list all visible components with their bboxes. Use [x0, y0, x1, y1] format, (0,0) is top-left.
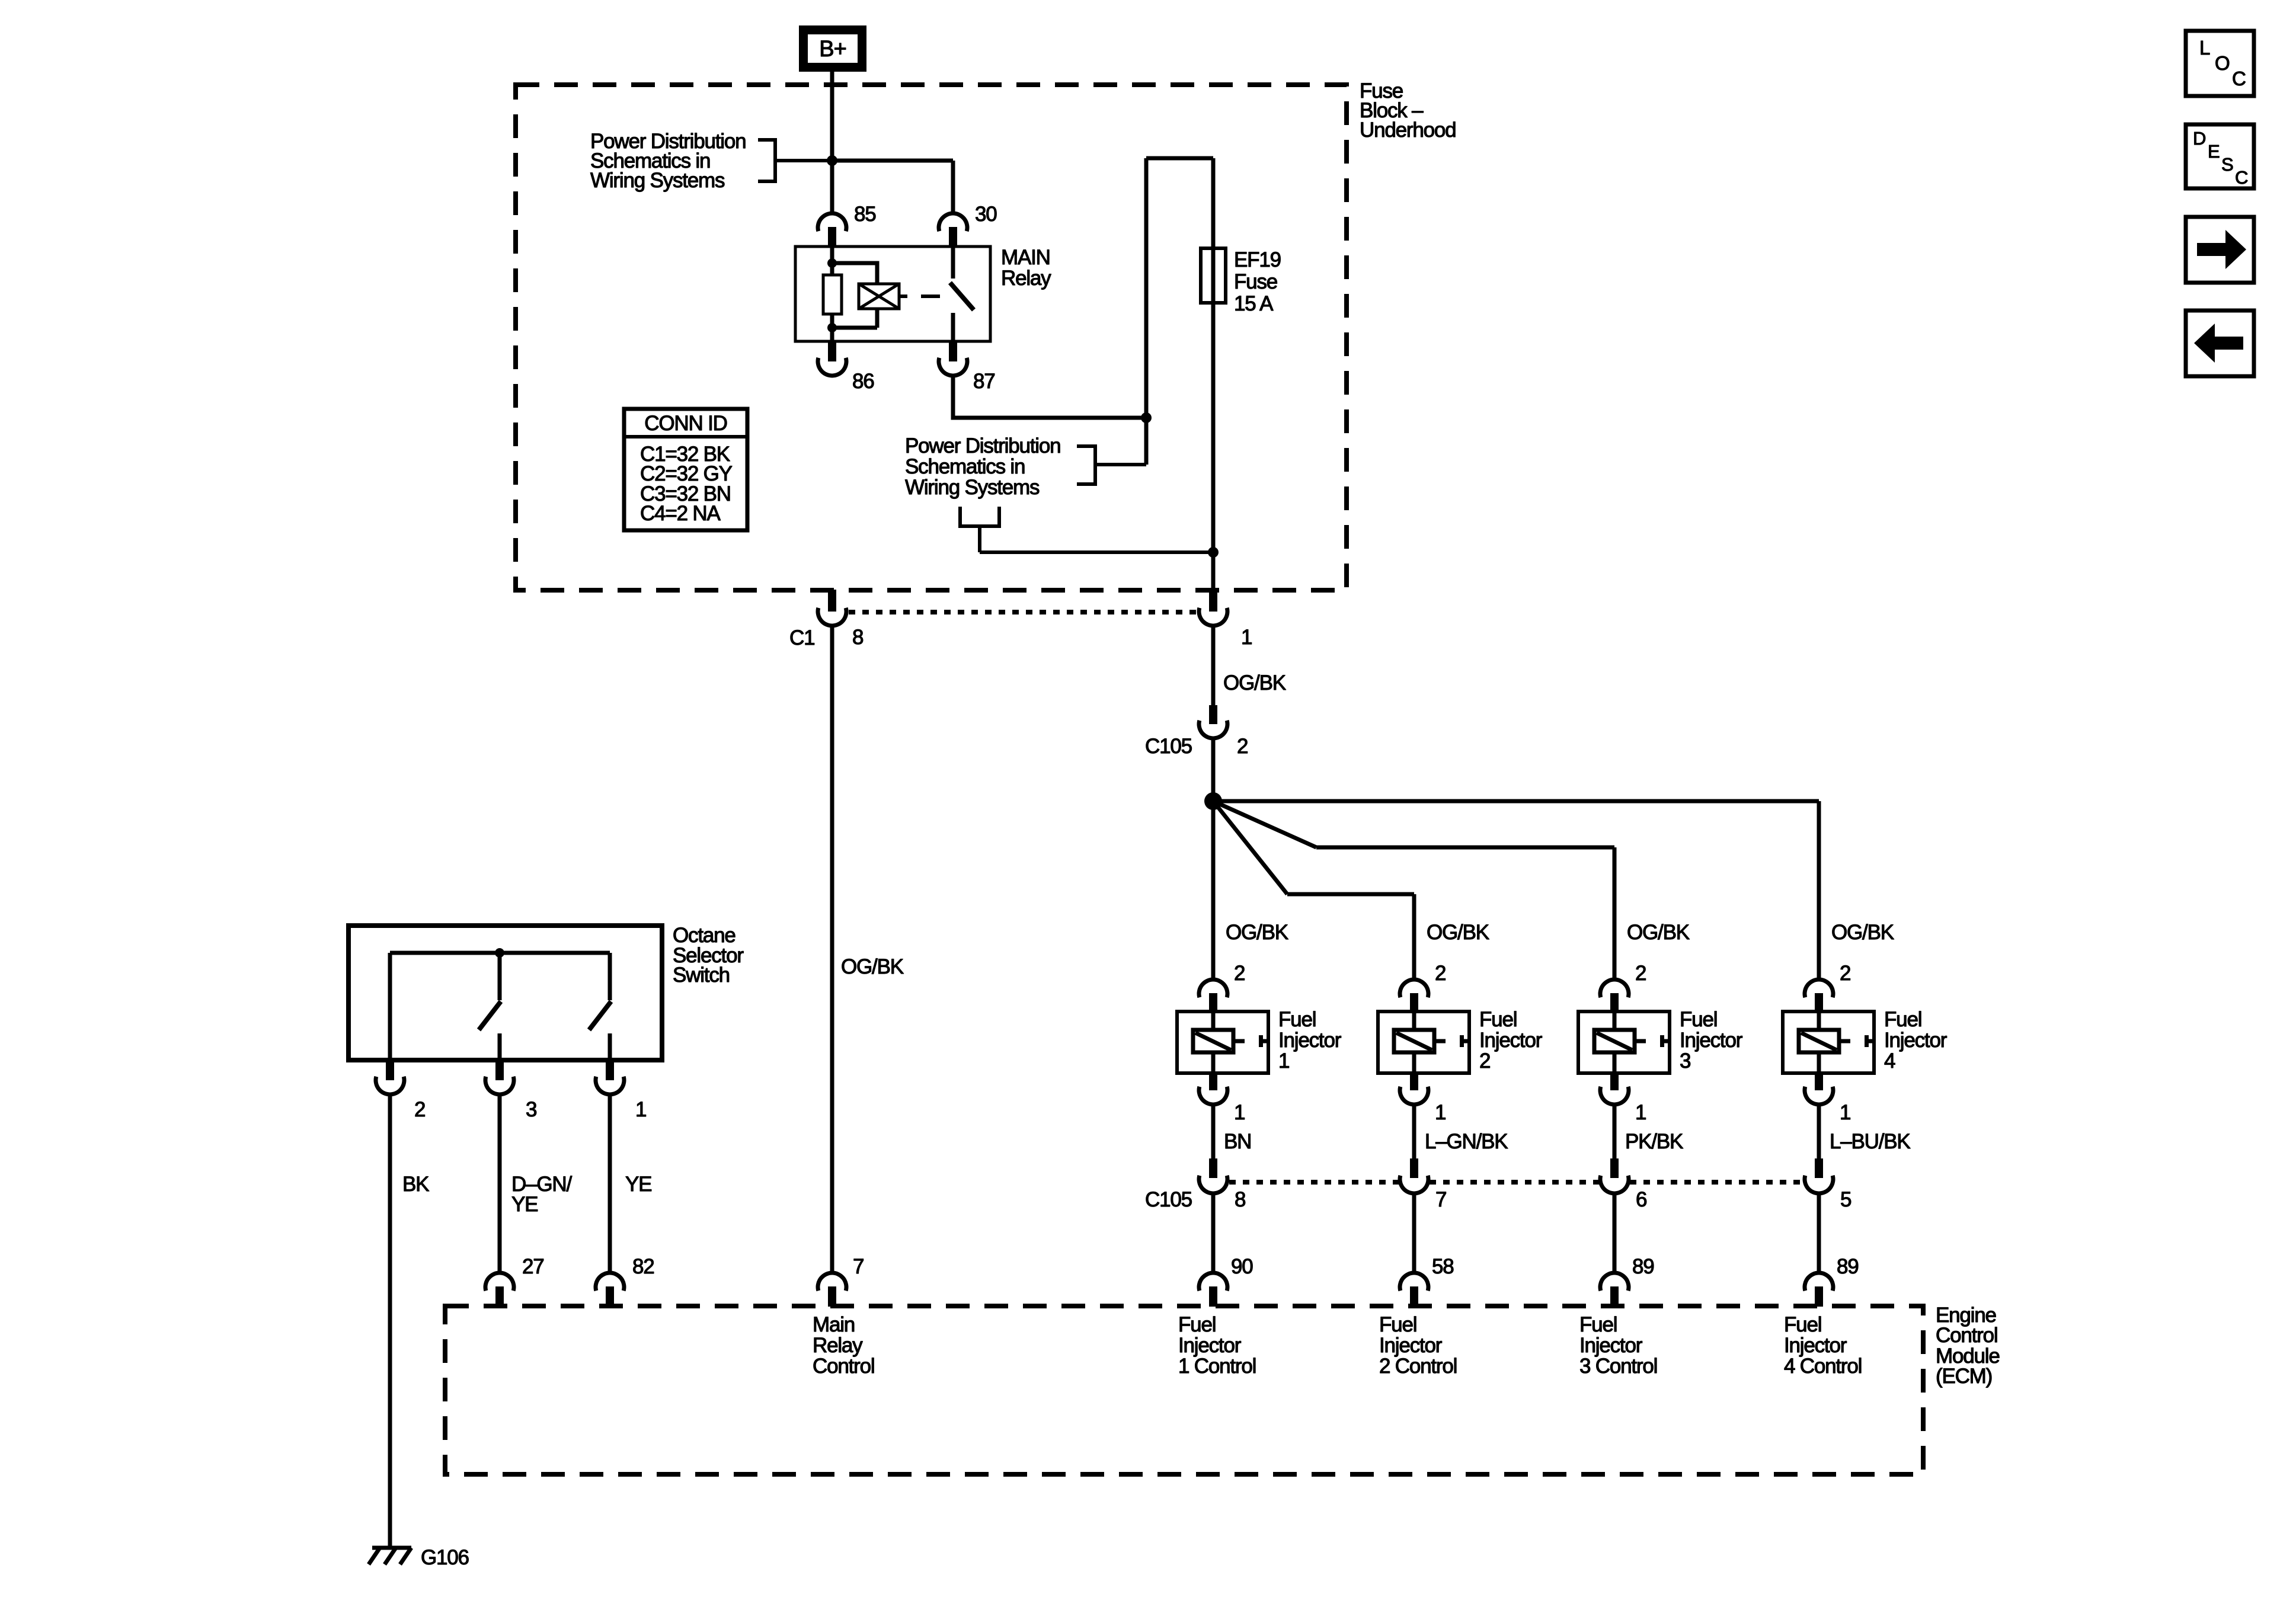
ECM pin 27 connector — [485, 1273, 514, 1307]
ECM pin 90 connector — [1199, 1273, 1227, 1307]
svg-text:Underhood: Underhood — [1360, 119, 1456, 142]
fuel injector 1 pin 1 connector — [1199, 1073, 1227, 1105]
ECM pin 82 connector — [596, 1273, 624, 1307]
node splice S (fuel injector feed) — [1204, 792, 1222, 810]
svg-text:Fuel: Fuel — [1178, 1313, 1216, 1336]
svg-text:90: 90 — [1231, 1255, 1253, 1278]
svg-text:Injector: Injector — [1680, 1029, 1743, 1052]
svg-text:C4=2 NA: C4=2 NA — [640, 502, 721, 525]
reference bracket (lower right) — [1077, 444, 1095, 486]
svg-text:OG/BK: OG/BK — [1427, 921, 1489, 944]
CONN ID table — [624, 409, 747, 530]
svg-text:Power Distribution: Power Distribution — [905, 434, 1060, 457]
svg-text:Fuel: Fuel — [1784, 1313, 1821, 1336]
wire injector 4 to C105 — [1817, 1103, 1821, 1158]
svg-text:7: 7 — [1435, 1188, 1446, 1211]
svg-text:2: 2 — [1435, 962, 1446, 985]
svg-text:OG/BK: OG/BK — [1627, 921, 1690, 944]
svg-text:G106: G106 — [421, 1546, 469, 1569]
connector C105 pin 8 — [1199, 1158, 1227, 1193]
ECM label Fuel Injector 3 Control — [1579, 1313, 1657, 1378]
connector C1 pin 1 — [1199, 590, 1227, 626]
svg-text:2: 2 — [1237, 735, 1248, 758]
fuse label EF19 — [1234, 248, 1281, 315]
fuel injector 2 pin 2 connector — [1400, 980, 1428, 1012]
svg-text:85: 85 — [854, 203, 876, 226]
svg-text:1: 1 — [1234, 1101, 1245, 1124]
svg-text:BN: BN — [1224, 1130, 1251, 1153]
svg-text:S: S — [2221, 154, 2234, 175]
svg-text:D: D — [2193, 128, 2206, 149]
fuel injector 4 body — [1783, 1012, 1874, 1073]
svg-text:2: 2 — [1479, 1049, 1490, 1073]
svg-text:87: 87 — [973, 370, 995, 393]
svg-text:C: C — [2235, 167, 2248, 188]
svg-text:82: 82 — [632, 1255, 654, 1278]
svg-text:Injector: Injector — [1278, 1029, 1342, 1052]
svg-text:2 Control: 2 Control — [1379, 1355, 1457, 1378]
wire C105 to ECM pin 89 — [1613, 1193, 1617, 1273]
svg-text:8: 8 — [1235, 1188, 1245, 1211]
svg-text:Fuel: Fuel — [1579, 1313, 1617, 1336]
svg-text:L–BU/BK: L–BU/BK — [1830, 1130, 1910, 1153]
svg-text:OG/BK: OG/BK — [1831, 921, 1894, 944]
svg-text:Control: Control — [1936, 1324, 1997, 1347]
svg-text:1: 1 — [1278, 1049, 1289, 1073]
engine control module label — [1936, 1304, 2000, 1388]
svg-text:2: 2 — [1635, 962, 1646, 985]
wire injector 2 to C105 — [1412, 1103, 1416, 1158]
svg-text:L–GN/BK: L–GN/BK — [1425, 1130, 1508, 1153]
svg-text:15 A: 15 A — [1234, 292, 1274, 315]
svg-text:Injector: Injector — [1479, 1029, 1543, 1052]
DESC button — [2186, 124, 2254, 188]
svg-text:L: L — [2199, 37, 2210, 59]
wire bracket to B+ node — [775, 159, 832, 162]
ECM label Main Relay Control — [813, 1313, 874, 1378]
fuel injector 2 pin 1 connector — [1400, 1073, 1428, 1105]
node power distribution tap — [1208, 547, 1219, 558]
fuel injector 1 body — [1177, 1012, 1268, 1073]
fuel injector 3 pin 1 connector — [1600, 1073, 1629, 1105]
svg-text:C105: C105 — [1145, 1188, 1192, 1211]
relay coil (box with X) — [859, 284, 899, 309]
svg-text:86: 86 — [852, 370, 874, 393]
wire C105 to ECM pin 58 — [1412, 1193, 1416, 1273]
ECM pin 7 connector — [818, 1273, 846, 1307]
relay label — [1001, 246, 1051, 290]
svg-text:E: E — [2208, 141, 2220, 162]
svg-text:Fuel: Fuel — [1884, 1008, 1921, 1031]
wire octane pin 1 to ECM 82 — [608, 1093, 612, 1273]
svg-text:EF19: EF19 — [1234, 248, 1281, 271]
svg-text:CONN ID: CONN ID — [644, 412, 727, 435]
wire injector 1 to C105 — [1211, 1103, 1216, 1158]
node fuse feed junction — [1141, 412, 1152, 423]
octane switch 2 (pin 1) — [589, 953, 611, 1060]
fuse block label — [1360, 79, 1456, 142]
node relay coil top — [827, 258, 837, 268]
svg-text:1: 1 — [1241, 626, 1252, 649]
svg-text:3 Control: 3 Control — [1579, 1355, 1657, 1378]
svg-text:OG/BK: OG/BK — [1223, 671, 1286, 694]
wire octane pin 2 to ground — [388, 1093, 392, 1548]
prev-page arrow button — [2186, 311, 2254, 376]
relay pin 87 connector — [939, 341, 967, 376]
svg-text:OG/BK: OG/BK — [1226, 921, 1288, 944]
svg-text:58: 58 — [1432, 1255, 1454, 1278]
svg-text:3: 3 — [526, 1098, 536, 1121]
wire fuse feed riser — [1146, 158, 1213, 465]
svg-text:30: 30 — [975, 203, 997, 226]
svg-text:Fuel: Fuel — [1680, 1008, 1717, 1031]
LOC button — [2186, 31, 2254, 96]
octane pin 2 connector — [376, 1060, 404, 1094]
connector line C1 — [849, 610, 1198, 614]
relay pin 30 connector — [939, 213, 967, 247]
next-page arrow button — [2186, 217, 2254, 283]
connector C105 pin 6 — [1600, 1158, 1629, 1193]
svg-text:5: 5 — [1840, 1188, 1851, 1211]
node B+ junction — [827, 155, 837, 166]
svg-text:Fuse: Fuse — [1234, 270, 1277, 293]
ECM label Fuel Injector 4 Control — [1784, 1313, 1862, 1378]
fuel injector 3 body — [1578, 1012, 1670, 1073]
octane pin 1 connector — [596, 1060, 624, 1094]
wire splice to injector 2 — [1213, 801, 1414, 980]
octane switch 1 (pin 3) — [479, 953, 501, 1060]
wire splice to injector 1 — [1211, 801, 1216, 980]
fuel injector 4 pin 2 connector — [1805, 980, 1833, 1012]
ECM pin 89 connector — [1805, 1273, 1833, 1307]
svg-text:2: 2 — [1234, 962, 1245, 985]
svg-text:Injector: Injector — [1884, 1029, 1948, 1052]
wire injector 3 to C105 — [1613, 1103, 1617, 1158]
svg-text:4: 4 — [1884, 1049, 1895, 1073]
relay actuator dashed link — [899, 295, 940, 298]
svg-text:PK/BK: PK/BK — [1625, 1130, 1683, 1153]
fuel injector 2 label — [1479, 1008, 1543, 1073]
connector C1 pin 8 — [818, 590, 846, 626]
engine control module boundary — [445, 1306, 1923, 1474]
relay switch contacts and blade — [950, 247, 974, 341]
wire C1-8 to ECM pin 7 — [830, 625, 834, 1273]
svg-text:Fuel: Fuel — [1479, 1008, 1517, 1031]
svg-text:Injector: Injector — [1579, 1334, 1643, 1357]
wire node to relay pin 85 — [830, 161, 834, 213]
svg-text:Injector: Injector — [1784, 1334, 1847, 1357]
wire B+ down to node — [830, 67, 834, 161]
svg-text:4 Control: 4 Control — [1784, 1355, 1862, 1378]
svg-text:BK: BK — [402, 1173, 429, 1196]
wire splice to injector 4 — [1213, 801, 1819, 980]
svg-text:Injector: Injector — [1379, 1334, 1443, 1357]
relay coil branch wires — [832, 247, 877, 341]
svg-text:YE: YE — [625, 1173, 651, 1196]
power symbol B+ — [804, 30, 862, 68]
svg-text:Main: Main — [813, 1313, 855, 1336]
relay pin 86 connector — [818, 341, 846, 376]
octane switch internal bus wire — [390, 953, 610, 1060]
svg-text:1: 1 — [1435, 1101, 1446, 1124]
svg-text:2: 2 — [1840, 962, 1850, 985]
svg-text:Switch: Switch — [673, 964, 730, 987]
wire bracket to fuse feed riser — [1095, 463, 1146, 466]
svg-text:7: 7 — [853, 1255, 864, 1278]
svg-text:Control: Control — [813, 1355, 874, 1378]
octane pin 3 connector — [485, 1060, 514, 1094]
svg-text:Relay: Relay — [1001, 267, 1051, 290]
connector line C105 (row 2) — [1229, 1180, 1803, 1185]
svg-text:O: O — [2215, 52, 2230, 74]
wire node to relay pin 30 — [832, 161, 953, 213]
connector C105 pin 7 — [1400, 1158, 1428, 1193]
svg-text:OG/BK: OG/BK — [841, 955, 904, 978]
svg-text:Schematics in: Schematics in — [905, 455, 1025, 478]
reference Power Distribution Schematics (upper) — [590, 130, 746, 192]
svg-text:MAIN: MAIN — [1001, 246, 1050, 269]
fuel injector 4 label — [1884, 1008, 1948, 1073]
svg-text:B+: B+ — [819, 37, 846, 62]
svg-text:8: 8 — [852, 626, 863, 649]
svg-text:Relay: Relay — [813, 1334, 863, 1357]
fuel injector 1 label — [1278, 1008, 1342, 1073]
ECM label Fuel Injector 1 Control — [1178, 1313, 1256, 1378]
svg-text:Injector: Injector — [1178, 1334, 1242, 1357]
svg-text:C105: C105 — [1145, 735, 1192, 758]
wire splice to injector 3 — [1213, 801, 1614, 980]
resistor relay internal — [823, 275, 842, 314]
node octane bus junction — [495, 948, 504, 958]
svg-text:Wiring Systems: Wiring Systems — [905, 476, 1040, 499]
ECM pin 89 connector — [1600, 1273, 1629, 1307]
svg-text:C: C — [2232, 68, 2246, 89]
fuse EF19 15A — [1201, 248, 1226, 303]
reference bracket (below text) — [958, 507, 1001, 526]
wire to fuse EF19 — [1211, 158, 1216, 590]
octane selector switch box — [348, 926, 662, 1060]
svg-text:2: 2 — [414, 1098, 425, 1121]
wire bracket to power distribution tap — [980, 526, 1213, 552]
wire C1-1 to C105-2 — [1211, 625, 1216, 705]
svg-text:1 Control: 1 Control — [1178, 1355, 1256, 1378]
node relay coil bottom — [827, 323, 837, 332]
wire relay pin 87 to fuse feed — [953, 375, 1146, 418]
fuel injector 1 pin 2 connector — [1199, 980, 1227, 1012]
ECM pin 58 connector — [1400, 1273, 1428, 1307]
svg-text:C1: C1 — [789, 626, 814, 649]
ECM label Fuel Injector 2 Control — [1379, 1313, 1457, 1378]
wire label D-GN/YE — [511, 1173, 572, 1216]
connector C105 pin 2 — [1199, 705, 1227, 738]
relay pin 85 connector — [818, 213, 846, 247]
wire C105-2 to splice — [1211, 737, 1216, 801]
svg-text:3: 3 — [1680, 1049, 1690, 1073]
relay MAIN box — [795, 247, 990, 341]
reference Power Distribution Schematics (lower) — [905, 434, 1060, 499]
svg-text:YE: YE — [511, 1193, 538, 1216]
fuel injector 2 body — [1378, 1012, 1469, 1073]
svg-text:1: 1 — [1635, 1101, 1646, 1124]
svg-text:1: 1 — [1840, 1101, 1850, 1124]
svg-text:89: 89 — [1632, 1255, 1654, 1278]
svg-text:Fuel: Fuel — [1278, 1008, 1316, 1031]
connector C105 pin 5 — [1805, 1158, 1833, 1193]
reference bracket (upper) — [758, 138, 775, 183]
fuel injector 3 label — [1680, 1008, 1743, 1073]
svg-text:Wiring Systems: Wiring Systems — [590, 169, 725, 192]
fuel injector 4 pin 1 connector — [1805, 1073, 1833, 1105]
svg-text:1: 1 — [635, 1098, 646, 1121]
svg-text:27: 27 — [522, 1255, 544, 1278]
wire C105 to ECM pin 90 — [1211, 1193, 1216, 1273]
wire C105 to ECM pin 89 — [1817, 1193, 1821, 1273]
wire octane pin 3 to ECM 27 — [498, 1093, 502, 1273]
svg-text:89: 89 — [1837, 1255, 1859, 1278]
svg-text:(ECM): (ECM) — [1936, 1365, 1992, 1388]
fuse block underhood boundary — [516, 85, 1347, 590]
ground G106 — [369, 1548, 411, 1564]
svg-text:Fuel: Fuel — [1379, 1313, 1416, 1336]
svg-text:6: 6 — [1636, 1188, 1646, 1211]
octane selector switch label — [673, 924, 744, 987]
fuel injector 3 pin 2 connector — [1600, 980, 1629, 1012]
